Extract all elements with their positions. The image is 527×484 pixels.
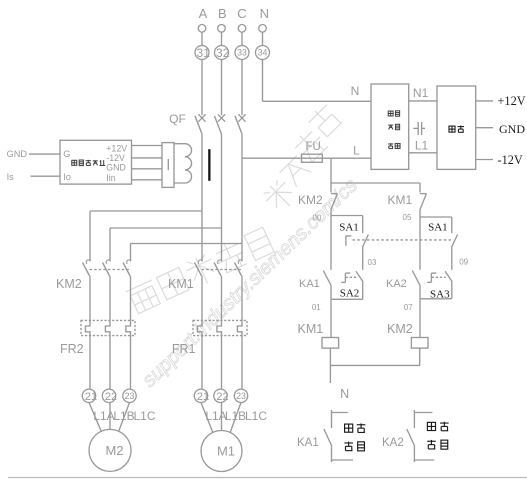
- svg-text:22: 22: [105, 391, 117, 403]
- thermal relay FR2 heater element: [105, 320, 110, 335]
- contact KM1 NC: [420, 193, 426, 195]
- svg-text:N: N: [340, 387, 349, 401]
- wire GND out: [476, 127, 493, 129]
- svg-text:GND: GND: [7, 149, 28, 159]
- wire: [451, 247, 453, 270]
- wire: [419, 348, 421, 365]
- terminal circle 21: [82, 389, 95, 402]
- wire: [362, 281, 364, 300]
- contactor KM1 linkage dashed: [202, 269, 243, 271]
- breaker QF pole A: [198, 114, 205, 121]
- svg-text:01: 01: [312, 303, 321, 312]
- svg-text:KA1: KA1: [299, 278, 320, 290]
- wire: [419, 210, 421, 218]
- motor M2 circle: [89, 429, 131, 471]
- thermal relay FR2 heater element: [126, 320, 131, 335]
- wire N to filter unit: [263, 100, 372, 102]
- wire: [330, 210, 332, 216]
- wire: [221, 336, 223, 390]
- wire to SA1 right branch: [420, 216, 452, 218]
- svg-text:SA1: SA1: [428, 221, 448, 233]
- svg-text:05: 05: [403, 213, 412, 222]
- watermark (decorative): [125, 227, 274, 316]
- wire: [419, 183, 421, 193]
- contactor KM1 main contacts: [198, 260, 202, 264]
- svg-text:GND: GND: [499, 122, 525, 136]
- svg-text:03: 03: [368, 258, 377, 267]
- contactor KM2 main contacts: [86, 260, 90, 264]
- svg-text:A: A: [199, 6, 208, 21]
- svg-text:+12V: +12V: [498, 94, 526, 108]
- svg-text:32: 32: [216, 46, 230, 60]
- svg-text:N: N: [260, 6, 269, 21]
- wire phase A to QF: [201, 60, 203, 116]
- relay contact KA1: [323, 271, 331, 286]
- wire: [330, 183, 332, 193]
- svg-text:KM2: KM2: [387, 322, 413, 336]
- terminal circle B top: [218, 25, 226, 33]
- signal processing board box: [60, 140, 132, 184]
- svg-text:23: 23: [236, 391, 246, 401]
- svg-text:M1: M1: [217, 444, 235, 459]
- svg-text:L: L: [353, 143, 360, 157]
- wire: [262, 32, 264, 45]
- terminal 31 circle: [195, 46, 209, 60]
- terminal circle 23: [234, 389, 247, 402]
- svg-text:KM1: KM1: [388, 193, 413, 207]
- svg-text:B: B: [218, 6, 227, 21]
- svg-text:L1: L1: [415, 138, 429, 152]
- svg-text:22: 22: [216, 391, 228, 403]
- thermal relay FR2 box: [81, 320, 135, 335]
- svg-text:L1C: L1C: [245, 409, 267, 423]
- wire phase C to L via fuse: [242, 157, 371, 159]
- svg-text:N: N: [351, 84, 360, 98]
- wire: [89, 336, 91, 390]
- wire tap B to KM2: [110, 227, 222, 229]
- wire: [109, 228, 111, 261]
- bottom frame line: [8, 477, 527, 479]
- svg-text:34: 34: [258, 48, 268, 58]
- thermal relay FR1 heater element: [217, 320, 222, 335]
- connector block: [162, 143, 174, 188]
- terminal circle N top: [259, 25, 267, 33]
- wire: [330, 216, 332, 270]
- wire: [419, 299, 421, 338]
- annotation text main pump run 主泵工作: [345, 424, 353, 432]
- svg-text:KA2: KA2: [382, 437, 404, 449]
- wire: [221, 32, 223, 45]
- wire N stub: [329, 365, 331, 383]
- wire: [451, 217, 453, 233]
- svg-text:L1C: L1C: [133, 409, 155, 423]
- switch SA1 right contact: [452, 235, 458, 248]
- power supply text 电源: [449, 126, 455, 132]
- thermal relay FR2 heater element: [85, 320, 90, 335]
- svg-text:FR1: FR1: [172, 342, 196, 356]
- svg-text:M2: M2: [105, 443, 123, 458]
- wires to motor M1: [201, 403, 213, 434]
- relay contact KA1 annotation: [331, 410, 333, 428]
- filter unit text 防雷滤波单元: [388, 111, 393, 116]
- wire board to connector: [132, 145, 163, 147]
- svg-text:KM1: KM1: [298, 322, 324, 336]
- wire tap C to KM2: [131, 243, 243, 245]
- svg-text:21: 21: [85, 391, 97, 403]
- terminal 34 circle: [256, 46, 270, 60]
- mechanical linkage dashed: [353, 239, 452, 241]
- svg-text:Iin: Iin: [106, 173, 115, 183]
- svg-text:GND: GND: [106, 162, 126, 172]
- breaker QF pole C: [238, 114, 245, 121]
- terminal circle A top: [198, 25, 206, 33]
- power supply box: [437, 86, 476, 169]
- wire N rail: [330, 364, 420, 366]
- wire: [130, 336, 132, 390]
- svg-text:Io: Io: [63, 172, 71, 182]
- switch SA1 contact: [363, 235, 369, 248]
- svg-text:31: 31: [197, 46, 211, 60]
- terminal 33 circle: [235, 46, 249, 60]
- wire: [109, 336, 111, 390]
- wire: [329, 348, 331, 365]
- wire GND to board: [29, 153, 60, 155]
- svg-text:KM1: KM1: [168, 277, 194, 291]
- CT coil winding: [174, 144, 192, 183]
- svg-text:QF: QF: [169, 112, 186, 126]
- svg-text:00: 00: [313, 214, 322, 223]
- wire control rail: [331, 182, 420, 184]
- wires to motor M2: [89, 403, 102, 432]
- svg-text:FU: FU: [306, 141, 321, 153]
- annotation text standby pump run 备泵工作: [427, 422, 435, 430]
- connector tick mark: [167, 159, 169, 170]
- terminal circle C top: [238, 25, 246, 33]
- wire rejoin: [331, 298, 363, 300]
- terminal 32 circle: [215, 46, 229, 60]
- relay contact KA2: [412, 271, 420, 286]
- fuse FU body: [302, 154, 323, 162]
- svg-text:07: 07: [404, 303, 413, 312]
- motor M1 circle: [201, 431, 242, 472]
- svg-text:KA2: KA2: [386, 278, 407, 290]
- wire: [241, 32, 243, 45]
- svg-text:C: C: [237, 6, 246, 21]
- thermal relay FR1 box: [193, 320, 247, 335]
- wire rejoin: [420, 298, 452, 300]
- wire board to connector: [132, 168, 163, 170]
- wire tap A to KM2: [90, 210, 202, 212]
- svg-text:KM2: KM2: [56, 277, 82, 291]
- contact KM2 NC: [331, 193, 337, 195]
- svg-text:KM2: KM2: [298, 193, 323, 207]
- contactor KM2 linkage dashed: [90, 269, 132, 271]
- wire Is to board: [31, 175, 61, 177]
- svg-text:N1: N1: [413, 86, 429, 100]
- wire: [241, 336, 243, 390]
- svg-text:SA1: SA1: [339, 221, 359, 233]
- svg-text:23: 23: [125, 391, 135, 401]
- wire: [451, 281, 453, 299]
- wire +12V out: [476, 100, 493, 102]
- wire: [201, 32, 203, 45]
- svg-text:KA1: KA1: [297, 437, 319, 449]
- wire N1: [409, 100, 437, 102]
- svg-text:FR2: FR2: [60, 342, 84, 356]
- wire: [201, 336, 203, 390]
- wire L tap down: [330, 158, 332, 183]
- svg-text:Is: Is: [7, 172, 15, 182]
- thermal relay FR1 heater element: [237, 320, 242, 335]
- svg-text:SA2: SA2: [340, 287, 360, 299]
- board name text 信号处理板: [72, 160, 77, 165]
- wire phase N down: [262, 60, 264, 102]
- svg-text:-12V: -12V: [498, 153, 523, 167]
- breaker QF pole B: [218, 114, 225, 121]
- wire: [130, 244, 132, 262]
- svg-text:33: 33: [237, 48, 247, 58]
- capacitor between N1 and L1: [413, 127, 418, 129]
- switch SA2 contact: [356, 271, 363, 281]
- terminal circle 21: [194, 389, 207, 402]
- wire: [419, 285, 421, 299]
- wire L1: [409, 152, 437, 154]
- CT core bar (phase A primary): [208, 149, 210, 181]
- wire to SA1 branch: [331, 215, 363, 217]
- terminal circle 23: [123, 389, 136, 402]
- lightning filter unit box: [371, 84, 409, 169]
- wire board to connector: [132, 157, 163, 159]
- wire: [89, 211, 91, 261]
- thermal relay FR1 heater element: [197, 320, 202, 335]
- wire: [419, 217, 421, 270]
- switch SA3 contact: [445, 271, 452, 281]
- svg-text:G: G: [63, 149, 70, 159]
- relay contact KA2 annotation: [413, 410, 415, 428]
- wire phase C to QF: [241, 60, 243, 116]
- svg-text:09: 09: [459, 257, 468, 266]
- terminal circle 22: [102, 389, 115, 402]
- wire: [362, 216, 364, 234]
- wire -12V out: [476, 159, 493, 161]
- wire: [362, 247, 364, 270]
- svg-text:21: 21: [197, 391, 209, 403]
- wire phase B to QF: [221, 60, 223, 116]
- coil KM2: [411, 338, 428, 349]
- wire: [330, 299, 332, 337]
- wire board to connector: [132, 179, 163, 181]
- wire: [330, 285, 332, 299]
- coil KM1: [322, 338, 339, 349]
- terminal circle 22: [214, 389, 227, 402]
